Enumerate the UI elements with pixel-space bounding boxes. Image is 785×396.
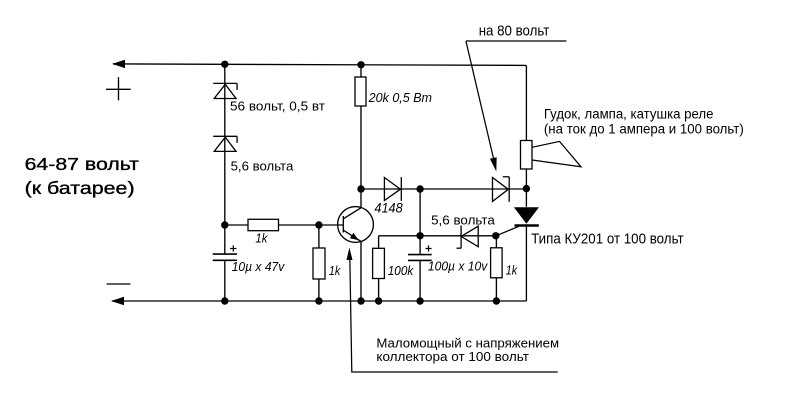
zener diode VD4 80V <box>493 177 510 202</box>
svg-text:56 вольт, 0,5 вт: 56 вольт, 0,5 вт <box>230 100 325 114</box>
wire: emitter to bottom rail <box>360 241 362 301</box>
zener diode VD1 56V <box>213 83 237 98</box>
label: plus polarity symbol <box>106 77 131 100</box>
callout: arrow shaft to VD4 <box>466 41 495 163</box>
load LA1 horn rectangle <box>521 141 533 170</box>
wire: RC timing node horizontal <box>379 235 496 237</box>
wire: left branch below capacitor <box>224 260 226 301</box>
svg-text:на 80 вольт: на 80 вольт <box>479 22 550 39</box>
diode VD3 4148 <box>384 177 401 201</box>
thyristor VS1 <box>496 207 539 236</box>
zener diode VD2 5.6V <box>213 136 237 151</box>
label: minus polarity symbol <box>107 283 131 285</box>
wire: left zener branch vertical <box>224 64 226 254</box>
svg-text:100µ x 10v: 100µ x 10v <box>428 259 488 273</box>
wire: gate resistor branch <box>495 236 497 301</box>
node: junction dots <box>221 61 530 305</box>
svg-text:64-87 вольт: 64-87 вольт <box>25 154 139 174</box>
wire: collector branch vertical <box>360 65 362 208</box>
svg-text:100k: 100k <box>388 263 415 278</box>
wire: bottom negative rail <box>112 300 526 302</box>
svg-text:20k 0,5 Вт: 20k 0,5 Вт <box>368 91 432 105</box>
svg-text:Гудок, лампа, катушка реле: Гудок, лампа, катушка реле <box>544 106 714 121</box>
capacitor C1 10u polar <box>213 254 237 260</box>
arrow: VD4 pointer head <box>490 157 497 171</box>
arrow: bottom-left battery - lead <box>111 297 124 305</box>
resistor R4 100k <box>373 248 385 278</box>
label: C1 plus sign <box>230 245 236 251</box>
horn speaker symbol <box>532 141 581 166</box>
callout: transistor pointer arrowhead <box>347 248 353 261</box>
svg-text:10µ x 47v: 10µ x 47v <box>232 260 285 274</box>
wire: C2 lower lead <box>419 260 421 301</box>
svg-text:1k: 1k <box>329 264 341 278</box>
resistor R3 20k <box>355 77 366 106</box>
wire: top positive rail <box>113 64 526 66</box>
wire: collector node to thyristor anode row <box>361 188 526 190</box>
callout: na 80 volt underline <box>466 40 567 42</box>
arrow: Q1 emitter arrowhead <box>350 233 359 240</box>
svg-text:4148: 4148 <box>374 200 403 215</box>
arrow: top-left battery + lead <box>112 60 125 68</box>
svg-text:5,6 вольта: 5,6 вольта <box>431 213 495 227</box>
svg-text:(на ток до 1 ампера и 100 воль: (на ток до 1 ампера и 100 вольт) <box>544 122 744 137</box>
resistor R1 1k horizontal <box>248 219 279 230</box>
label: C2 plus sign <box>426 245 432 251</box>
wire: base network horizontal <box>225 224 343 226</box>
wire: thyristor cathode to bottom rail <box>525 226 527 302</box>
wire: 100k branch vertical <box>378 236 380 301</box>
wire: 4148 cathode down to RC node <box>419 189 421 236</box>
svg-text:1k: 1k <box>255 230 268 245</box>
callout: transistor pointer shaft <box>350 256 558 372</box>
svg-text:5,6 вольта: 5,6 вольта <box>231 160 294 174</box>
svg-text:Типа КУ201 от 100 вольт: Типа КУ201 от 100 вольт <box>531 230 684 247</box>
zener diode VD5 5.6V gate <box>457 226 479 249</box>
svg-text:1k: 1k <box>506 264 518 278</box>
capacitor C2 100u polar <box>408 255 432 261</box>
wire: base divider vertical <box>318 225 320 301</box>
svg-text:коллектора от 100 вольт: коллектора от 100 вольт <box>376 349 529 364</box>
wire: right rail load branch <box>525 65 527 206</box>
resistor R5 1k gate <box>491 248 503 278</box>
wire: capacitor C2 branch <box>419 236 421 255</box>
resistor R2 1k vertical <box>313 248 325 279</box>
transistor Q1 <box>338 207 374 243</box>
svg-text:(к батарее): (к батарее) <box>25 178 135 198</box>
